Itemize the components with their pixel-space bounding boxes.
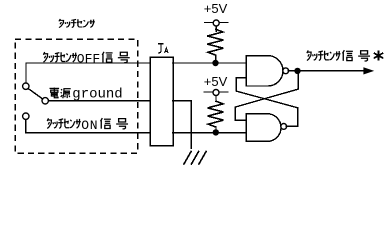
label: power ground [50,87,123,103]
svg-text:ON: ON [81,118,98,133]
NAND gate U1 (upper) [246,56,283,86]
resistor R2 (pull-up on ON line) [208,101,224,127]
wire: ground from connector to ground riser [173,101,192,149]
+5V power terminal symbol (lower) [204,90,228,102]
output arrow head [363,67,374,74]
wire: OFF signal horizontal (inside box to connector) [26,62,150,64]
NAND gate U2 (lower) [246,114,281,142]
junction: R2 / ON line [213,129,219,135]
wire: stem from +5V to resistor R1 [215,26,217,30]
wire: OFF signal (left drop to switch contact) [25,63,27,83]
wire: cross-coupling A (U1 output down to U2 upper input) [235,71,298,120]
wire: resistor R2 to junction [215,127,217,130]
label: connector designator J [158,44,164,53]
ground symbol [184,151,207,165]
label: touch-sensor title (katakana) [59,19,95,28]
inverter bubble U2 [281,124,287,130]
svg-text:+5V: +5V [204,1,228,16]
svg-text:OFF: OFF [77,51,100,66]
switch blade (throw between OFF contact and ground contact) [28,89,43,100]
dashed enclosure: touch sensor unit [15,39,138,153]
svg-text:+5V: +5V [204,74,228,89]
junction: U1 output node [294,68,300,74]
switch contact circle (common, on ground line) [42,98,48,104]
wire: ON signal from connector to NAND U2 input [173,132,247,134]
wire: resistor R1 to junction [215,55,217,61]
junction: R1 / OFF line [212,60,218,66]
wire: stem from +5V to resistor R2 [215,96,217,102]
wire: OFF signal from connector to NAND U1 input [173,62,247,64]
connector J_A [150,57,173,145]
inverter bubble U1 [283,68,289,74]
asterisk marker [374,51,384,61]
label: touch-sensor OFF signal [43,51,129,66]
wire: cross-coupling B (U2 output up to U1 lower input) [236,78,297,127]
wire: ON signal (drop from contact then horizontal to connector) [26,120,150,133]
+5V power terminal symbol (upper) [205,20,229,32]
switch contact circle (ON side) [23,113,29,119]
switch contact circle (OFF side) [23,83,29,89]
wire: power ground horizontal (to connector) [49,100,151,102]
label: connector subscript A [165,48,168,53]
label: output net (katakana + kanji + asterisk) [307,50,341,60]
wire: U1 output to arrow [288,70,366,72]
resistor R1 (pull-up on OFF line) [207,29,223,55]
label: touch-sensor ON signal [47,118,128,133]
